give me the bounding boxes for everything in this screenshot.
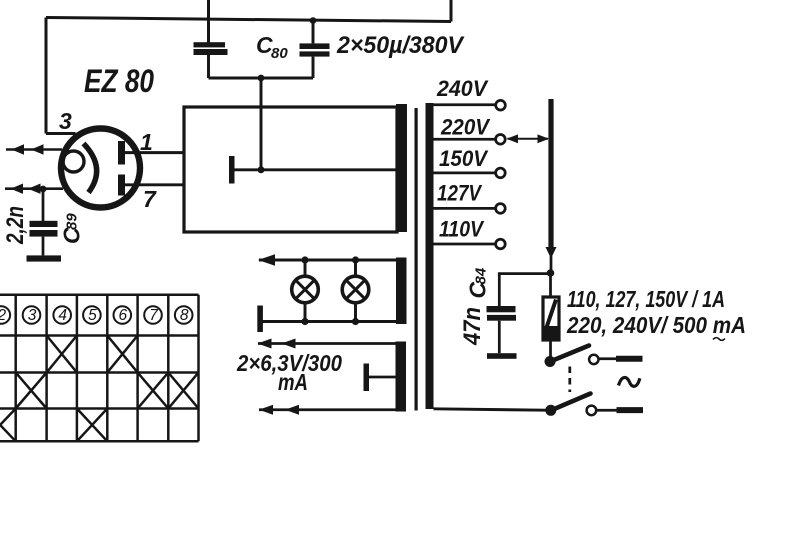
wire rail to C80b [312,21,315,44]
capacitor C84 plates [487,306,517,321]
svg-text:3: 3 [28,307,37,324]
HV center tap chassis bar [229,156,235,184]
wire from C80 junction down to HV center tap [260,78,263,170]
node junction on rail [310,17,317,24]
capacitor C89 plates [30,221,58,237]
wire S1b contact to terminal [596,409,617,412]
ground chassis bar lamp return [257,306,263,333]
terminal 150V [496,168,506,178]
pin connection table grid [0,295,199,442]
terminal 220V [496,135,506,145]
switch S1a lever [549,346,589,363]
selector plug double arrow at 220V [508,138,549,140]
wire anode 7 lead to winding box [125,183,184,186]
svg-text:mA: mA [278,369,308,395]
wire 6.3V winding bottom with arrows [259,408,396,411]
wire primary tap 220V [433,138,496,141]
dashed mechanical link [568,367,571,393]
voltage selector bar [548,99,553,247]
wire junction to C84 [499,274,550,307]
tube anode plate pin1 [118,141,125,165]
wire down to C89 [42,189,45,221]
svg-text:3: 3 [59,108,72,134]
wire primary tap 110V [433,243,496,246]
table X marks [0,336,199,442]
terminal 127V [496,204,506,214]
svg-text:80: 80 [271,45,288,62]
transformer core line [415,108,418,411]
squiggle under mA [713,338,725,341]
wire lamp winding top with arrow [259,259,397,262]
capacitor C80b plates [300,43,330,56]
wire selector to junction [550,256,553,273]
wire C89 bottom lead [42,237,45,256]
wire linking both C80 bottoms [209,77,314,80]
value label C89 [59,213,85,244]
wire C80a bottom lead [207,55,210,78]
wire primary bottom to switch S1b [434,409,546,410]
svg-text:47n: 47n [459,307,486,346]
wire 6.3V winding top with arrows [258,342,396,345]
tube cathode arc [84,144,97,193]
value label C84 [465,267,491,298]
wire C80b bottom lead [312,57,315,78]
ground chassis bar of C89 [27,255,62,261]
svg-text:220V: 220V [440,115,491,140]
svg-text:EZ 80: EZ 80 [84,63,154,99]
switch S1b lever [550,394,591,412]
tube anode plate pin7 [118,175,125,196]
lamp L1 [292,276,319,303]
wire top B+ rail [46,18,451,22]
wire pin 3 cathode lead [46,132,76,135]
terminal bar lower [617,407,644,413]
transformer 6.3V winding bar [396,342,407,412]
svg-text:5: 5 [88,307,97,324]
transformer HV secondary winding box [184,107,397,232]
wire HV center tap [235,168,398,171]
svg-text:110V: 110V [439,217,485,242]
svg-text:84: 84 [473,267,490,284]
wire vertical from top edge to C80a [207,0,210,43]
wire lamp 2 leads [354,260,357,322]
svg-text:240V: 240V [436,76,489,101]
svg-text:7: 7 [143,186,157,212]
node lamp bottom right [352,318,359,325]
node junction center tap [258,166,265,173]
svg-text:2,2n: 2,2n [2,206,29,245]
value label C80 [256,32,288,62]
svg-text:2×50µ/380V: 2×50µ/380V [336,32,465,59]
node junction of C80 bottoms [258,75,265,82]
wire lamp winding bottom [261,320,398,323]
transformer primary winding bar [426,103,434,409]
switch S1b pivot [545,405,556,416]
ground chassis bar C84 [487,353,517,359]
switch S1a contact [589,355,598,364]
wire anode 1 lead to winding box [125,151,184,154]
wire 6.3V center tap [369,376,396,379]
capacitor C80a plates [194,42,228,55]
wire S1a contact to terminal [599,357,618,360]
node junction to C89 [40,186,47,193]
tube EZ80 envelope [61,129,140,208]
transformer lamp winding bar [396,258,407,325]
wire primary tap 240V [433,103,496,106]
terminal 240V [496,100,506,110]
wire rail riser to top edge [450,0,453,22]
node lamp top right [352,256,359,263]
ground chassis bar 6.3V center tap [364,364,370,392]
switch S1b contact [587,406,597,416]
wire junction to fuse [549,273,552,297]
table pin circles and numbers [0,306,193,324]
svg-text:2: 2 [0,307,6,324]
fuse F1 body [543,297,559,340]
svg-text:220, 240V/ 500 mA: 220, 240V/ 500 mA [566,312,746,338]
wire fuse to switch [549,341,552,358]
svg-text:150V: 150V [439,146,489,171]
wire C84 bottom lead [498,321,501,354]
wire primary tap 150V [433,172,496,175]
switch S1a pivot [545,356,556,367]
wire lamp 1 leads [304,260,307,322]
transformer HV winding bar [396,104,407,232]
wire heater output arrow line upper [6,148,62,151]
node junction selector output [547,269,555,277]
AC tilde symbol [619,377,640,386]
terminal 110V [496,239,506,249]
lamp L2 [342,276,369,303]
wire heater output arrow line lower [5,187,63,190]
svg-text:7: 7 [149,307,159,324]
svg-text:4: 4 [58,307,67,324]
svg-text:127V: 127V [437,181,483,206]
node lamp bottom left [301,318,308,325]
svg-text:1: 1 [140,129,153,155]
terminal bar upper [616,356,643,362]
fuse filled lower section [542,326,561,342]
node lamp top left [301,256,308,263]
tube heater loop [63,151,84,172]
svg-text:6: 6 [118,307,127,324]
svg-text:89: 89 [64,213,81,230]
svg-text:110, 127, 150V / 1A: 110, 127, 150V / 1A [567,286,725,312]
svg-text:8: 8 [180,307,189,324]
wire primary tap 127V [433,207,496,210]
fuse diagonal element [547,300,557,328]
selector arrowhead down [546,247,557,259]
wire left drop from rail to tube pin 3 [45,18,48,134]
